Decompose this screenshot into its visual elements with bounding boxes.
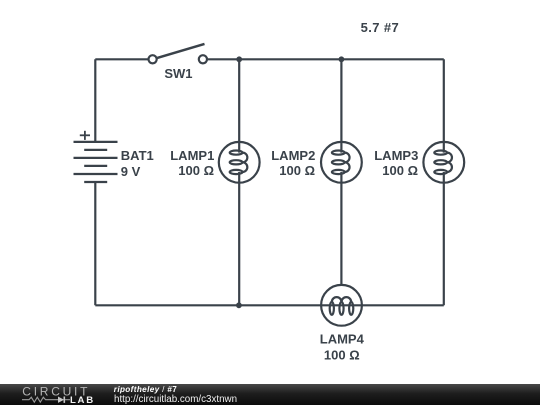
svg-text:BAT1: BAT1	[121, 148, 154, 163]
svg-text:100 Ω: 100 Ω	[324, 348, 360, 363]
svg-text:LAMP1: LAMP1	[170, 148, 214, 163]
svg-text:5.7 #7: 5.7 #7	[361, 20, 400, 35]
svg-text:100 Ω: 100 Ω	[382, 163, 418, 178]
svg-text:LAMP4: LAMP4	[320, 332, 365, 347]
svg-text:LAMP3: LAMP3	[374, 148, 418, 163]
svg-text:LAB: LAB	[70, 395, 95, 405]
svg-text:SW1: SW1	[164, 66, 192, 81]
svg-text:9 V: 9 V	[121, 164, 141, 179]
svg-text:100 Ω: 100 Ω	[178, 163, 214, 178]
svg-text:100 Ω: 100 Ω	[279, 163, 315, 178]
svg-text:LAMP2: LAMP2	[271, 148, 315, 163]
